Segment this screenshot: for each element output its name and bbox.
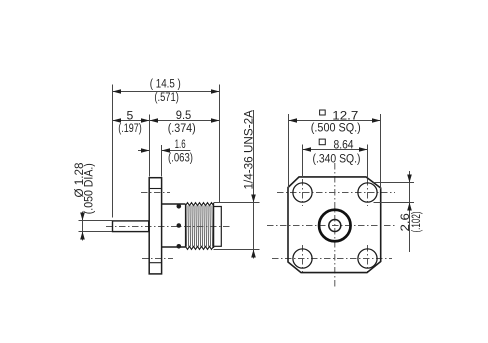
arrow thread dia top (points down) — [251, 195, 256, 203]
extension line square left — [288, 114, 290, 189]
center boss outer circle — [319, 210, 351, 242]
arrow pin dia bottom (points up) — [80, 232, 85, 240]
arrow 2.6 bottom (points up) — [407, 203, 412, 211]
arrow 14.5 left — [113, 89, 122, 94]
thread flank hatching — [187, 206, 214, 247]
dimension 2.6 line — [409, 171, 411, 252]
centerline LR hole vertical — [367, 245, 369, 272]
centerline UR hole vertical — [367, 179, 369, 206]
flange outline (square with chamfered corners) — [288, 177, 381, 273]
flange chamfer step top — [149, 188, 161, 190]
thread crest sawtooth bottom — [186, 246, 214, 249]
mounting hole LR — [358, 249, 377, 268]
extension line hole top tangent — [374, 182, 415, 184]
centerline front horizontal axis — [267, 225, 397, 227]
dimension 8.64 line — [303, 149, 368, 151]
dimension 1.6 shelf — [162, 150, 191, 152]
dot marker center — [177, 223, 182, 228]
svg-text:( 14.5 ): ( 14.5 ) — [150, 78, 181, 90]
svg-text:8.64: 8.64 — [334, 137, 354, 151]
arrow 12.7 left — [289, 118, 298, 123]
svg-text:12.7: 12.7 — [332, 108, 358, 122]
connector body — [162, 204, 186, 247]
extension line pin left end — [112, 85, 114, 218]
extension line hole bottom tangent — [374, 202, 415, 204]
mounting hole LL — [293, 249, 312, 268]
dimension pin dia line — [82, 212, 84, 241]
dot marker top — [177, 204, 182, 209]
arrow 12.7 right — [372, 118, 381, 123]
svg-text:(.340 SQ.): (.340 SQ.) — [313, 154, 361, 166]
dimension thread dia line — [253, 110, 255, 259]
arrow 8.64 right — [359, 147, 368, 152]
arrow 5 right — [141, 118, 150, 123]
arrow 9.5 right — [211, 118, 220, 123]
mounting hole UR — [358, 183, 377, 202]
thread crest sawtooth top — [186, 203, 214, 206]
centerline upper mounting-hole axis (side view) — [141, 192, 170, 194]
centerline upper hole row — [277, 192, 395, 194]
extension line pin top — [79, 220, 113, 222]
arrow 1.6 left (points right) — [141, 148, 150, 153]
extension line body right end — [219, 85, 221, 204]
center pin — [113, 221, 149, 232]
arrow 5 left — [113, 118, 122, 123]
extension line flange right — [161, 145, 163, 177]
arrow thread dia bottom (points up) — [251, 250, 256, 258]
centerline lower hole row — [272, 258, 392, 260]
svg-text:(.374): (.374) — [168, 123, 196, 135]
arrow 1.6 right (points left) — [162, 148, 171, 153]
centerline LL hole vertical — [302, 245, 304, 272]
dimension 14.5 line — [113, 91, 220, 93]
svg-text:(.063): (.063) — [168, 152, 193, 164]
arrow 9.5 left — [150, 118, 159, 123]
arrow 8.64 left — [303, 147, 312, 152]
svg-text:(.571): (.571) — [154, 92, 179, 104]
label square symbol 12.7 — [320, 110, 326, 115]
extension line square right — [380, 114, 382, 189]
arrow pin dia top (points down) — [80, 213, 85, 221]
centerline front vertical axis — [334, 163, 336, 288]
svg-text:(.197): (.197) — [118, 123, 142, 135]
arrow 2.6 top (points down) — [407, 175, 412, 183]
mounting hole UL — [293, 183, 312, 202]
label square symbol 8.64 — [319, 139, 325, 145]
svg-text:1.6: 1.6 — [175, 139, 186, 151]
center contact inner circle — [329, 220, 341, 232]
arrow 14.5 right — [211, 89, 220, 94]
dimension 5 / 9.5 line — [113, 120, 220, 122]
dimension 1.6 left piece — [138, 150, 150, 152]
dimension 12.7 line — [289, 120, 381, 122]
body end cap — [214, 207, 222, 247]
dot marker bottom — [177, 244, 182, 249]
centerline side view axis — [106, 226, 231, 228]
extension line flange left — [149, 115, 151, 177]
thread band right edge — [213, 203, 215, 248]
svg-text:5: 5 — [127, 108, 134, 122]
svg-text:9.5: 9.5 — [176, 108, 192, 122]
svg-text:(.500 SQ.): (.500 SQ.) — [311, 122, 361, 134]
svg-text:1/4-36 UNS-2A: 1/4-36 UNS-2A — [244, 110, 256, 190]
extension line thread top — [214, 202, 260, 204]
svg-text:(.102): (.102) — [411, 211, 423, 232]
svg-text:(.050 DIA.): (.050 DIA.) — [84, 163, 96, 214]
centerline lower mounting-hole axis (side view) — [142, 258, 173, 260]
extension line thread bottom — [214, 249, 260, 251]
flange plate — [149, 178, 161, 274]
flange chamfer step bottom — [149, 262, 161, 264]
extension line hole col left — [302, 145, 304, 178]
extension line hole col right — [367, 145, 369, 178]
thread band left edge — [185, 204, 187, 247]
centerline UL hole vertical — [302, 179, 304, 206]
extension line pin bottom — [79, 231, 113, 233]
